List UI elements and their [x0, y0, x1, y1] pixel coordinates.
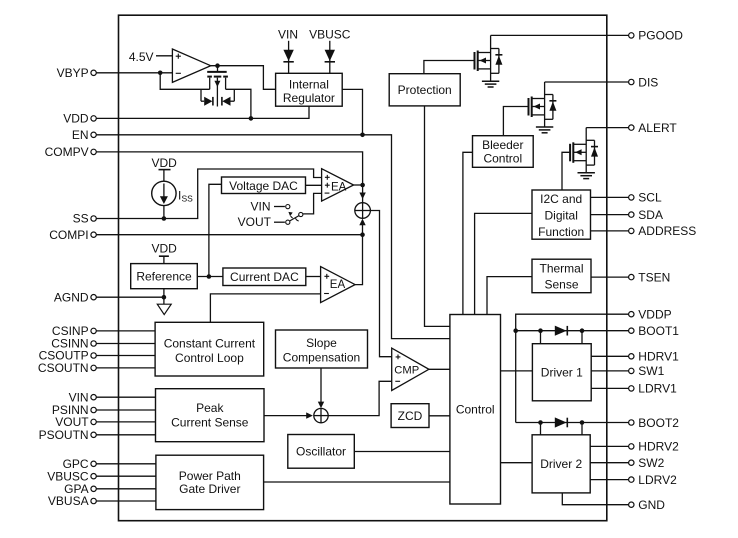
- pin SDA (right terminal): [629, 208, 663, 222]
- svg-text:VBYP: VBYP: [57, 66, 89, 80]
- pin ALERT (right terminal): [629, 121, 678, 135]
- svg-text:TSEN: TSEN: [638, 270, 670, 284]
- svg-text:CMP: CMP: [394, 364, 419, 376]
- diode D3 (bootstrap, BOOT1): [555, 326, 568, 336]
- Protection block: [389, 74, 460, 106]
- pin PSOUTN (left terminal): [39, 428, 97, 442]
- VDD rail above ISS: [152, 156, 178, 181]
- Peak Current Sense block: [156, 389, 265, 442]
- svg-text:Oscillator: Oscillator: [296, 445, 346, 459]
- wire BOOT1 cathode stub to Driver 1: [581, 331, 583, 344]
- wire VDD pin to Internal Regulator bottom: [96, 106, 309, 118]
- wire CSINP to Constant Current Control Loop: [96, 330, 155, 332]
- wire Q1 drain line to PGOOD: [491, 34, 629, 36]
- svg-text:CSOUTN: CSOUTN: [38, 361, 89, 375]
- svg-text:Slope: Slope: [306, 336, 337, 350]
- Voltage DAC block: [222, 177, 306, 194]
- wire Reference output up to Voltage DAC: [209, 184, 222, 276]
- junction BOOT2 diode cathode: [580, 420, 585, 425]
- wire EA2 output up into SUM1 (arrow): [355, 222, 362, 285]
- wire CSINN to Constant Current Control Loop: [96, 343, 155, 345]
- current source ISS: [152, 181, 193, 205]
- svg-text:Reference: Reference: [136, 270, 192, 284]
- Power Path Gate Driver block: [156, 455, 264, 509]
- wire VBYP to A1 inverting input: [96, 72, 172, 74]
- svg-text:4.5V: 4.5V: [129, 50, 154, 64]
- svg-text:VDD: VDD: [152, 242, 178, 256]
- Driver 2 block: [532, 435, 590, 493]
- svg-text:VBUSC: VBUSC: [309, 28, 351, 42]
- wire COMPV pin to EA1 output node: [96, 152, 362, 185]
- svg-text:LDRV2: LDRV2: [638, 473, 677, 487]
- svg-text:VIN: VIN: [250, 200, 270, 214]
- wire EN pin to Control: [96, 135, 450, 339]
- wire Internal Regulator output down to EN line: [342, 89, 362, 134]
- junction EN / Internal Regulator output: [360, 133, 365, 138]
- wire EA1 output to summing node: [354, 184, 363, 186]
- svg-text:PGOOD: PGOOD: [638, 29, 683, 43]
- svg-text:DIS: DIS: [638, 75, 658, 89]
- wire SUM2 output to CMP minus input: [328, 381, 392, 415]
- svg-text:Sense: Sense: [544, 278, 578, 292]
- wire VIN to Peak Current Sense: [96, 396, 155, 398]
- pin GND (right terminal): [629, 498, 666, 512]
- svg-text:Regulator: Regulator: [283, 91, 335, 105]
- svg-text:VOUT: VOUT: [238, 215, 272, 229]
- junction BOOT1 diode anode: [538, 328, 543, 333]
- wire BOOT2 cathode stub to Driver 2: [581, 423, 583, 435]
- svg-text:VDDP: VDDP: [638, 308, 671, 322]
- pin GPC (left terminal): [63, 457, 97, 471]
- svg-text:Current Sense: Current Sense: [171, 416, 249, 430]
- op-amp A1 (4.5V bypass comparator): [172, 49, 210, 82]
- ZCD block: [391, 404, 429, 428]
- diode D2 under VBUSC: [309, 28, 351, 74]
- wire Bleeder Control to Control top: [463, 152, 473, 314]
- svg-text:BOOT2: BOOT2: [638, 416, 679, 430]
- pin VIN (left terminal): [69, 390, 97, 404]
- svg-text:EA: EA: [330, 279, 346, 291]
- svg-text:EA: EA: [331, 181, 347, 193]
- wire CMP output to Control: [429, 368, 450, 370]
- wire CSOUTP to Constant Current Control Loop: [96, 355, 155, 357]
- wire Voltage DAC output to EA1: [306, 184, 322, 186]
- wire Thermal Sense to TSEN: [591, 276, 629, 278]
- pin PSINN (left terminal): [52, 403, 96, 417]
- junction VDDP rail / BOOT1: [513, 328, 518, 333]
- wire BOOT2 line: [516, 422, 629, 424]
- svg-text:PSOUTN: PSOUTN: [39, 428, 89, 442]
- svg-text:Bleeder: Bleeder: [482, 138, 523, 152]
- wire Driver 1 to HDRV1: [591, 355, 628, 357]
- wire I2C block to Q3 gate: [562, 152, 570, 190]
- svg-text:SW1: SW1: [638, 364, 664, 378]
- wire Driver 1 to SW1: [591, 370, 628, 372]
- wire PSOUTN to Peak Current Sense: [96, 434, 155, 436]
- wire SUM1 output to CMP positive input: [370, 211, 391, 357]
- wire ZCD output to Control: [429, 415, 450, 417]
- pin COMPV (left terminal): [45, 145, 97, 159]
- svg-text:VDD: VDD: [63, 112, 89, 126]
- svg-text:Driver 2: Driver 2: [540, 457, 582, 471]
- wire Driver 2 bottom to GND: [562, 493, 628, 505]
- wire Slope Compensation into SUM2 (arrow): [320, 368, 322, 405]
- pin LDRV2 (right terminal): [629, 473, 677, 487]
- pin VBYP (left terminal): [57, 66, 97, 80]
- wire Protection to Q1 gate: [424, 61, 475, 74]
- pin CSOUTN (left terminal): [38, 361, 96, 375]
- wire GPC to Power Path Gate Driver: [96, 463, 156, 465]
- Thermal Sense block: [532, 259, 591, 293]
- svg-text:Current DAC: Current DAC: [230, 270, 299, 284]
- wire COMPI pin to EA2 output node: [96, 234, 362, 236]
- pin COMPI (left terminal): [49, 228, 96, 242]
- wire Power Path Gate Driver to Control: [264, 481, 450, 483]
- wire CSOUTN to Constant Current Control Loop: [96, 367, 155, 369]
- svg-text:I2C and: I2C and: [540, 192, 582, 206]
- svg-text:AGND: AGND: [54, 290, 89, 304]
- wire Oscillator output to Control: [354, 451, 450, 453]
- wire BOOT1 line: [516, 330, 629, 332]
- svg-text:Internal: Internal: [289, 78, 329, 92]
- svg-text:Constant Current: Constant Current: [164, 336, 256, 350]
- pin VOUT (left terminal): [55, 415, 96, 429]
- svg-text:Gate Driver: Gate Driver: [179, 482, 240, 496]
- value label 4.5V: [129, 50, 173, 64]
- I2C and Digital Function block: [532, 190, 591, 239]
- pin VBUSA (left terminal): [48, 494, 96, 508]
- transistor M1 (back-to-back PMOS pass device): [201, 66, 234, 107]
- svg-text:VDD: VDD: [152, 156, 178, 170]
- wire EA1 output node into SUM1 (arrow): [362, 185, 364, 203]
- Constant Current Control Loop block: [155, 322, 264, 376]
- wire Q1 drain/source vertical: [490, 35, 492, 81]
- wire Thermal Sense to Control top: [487, 277, 532, 315]
- pin VDD (left terminal): [63, 112, 96, 126]
- pin BOOT2 (right terminal): [629, 416, 680, 430]
- svg-text:Peak: Peak: [196, 401, 224, 415]
- svg-text:VIN: VIN: [278, 28, 298, 42]
- pin ADDRESS (right terminal): [629, 224, 697, 238]
- wire Reference output to Current DAC: [197, 276, 223, 278]
- wire BOOT1 anode stub to Driver 1: [540, 331, 542, 344]
- Driver 1 block: [532, 344, 591, 401]
- Bleeder Control block: [473, 136, 534, 168]
- svg-text:SCL: SCL: [638, 191, 662, 205]
- wire I2C block to Control top: [475, 213, 532, 314]
- svg-text:VBUSA: VBUSA: [48, 494, 89, 508]
- svg-text:HDRV2: HDRV2: [638, 440, 679, 454]
- svg-text:Driver 1: Driver 1: [541, 366, 583, 380]
- ground symbol on AGND (open triangle): [157, 297, 171, 314]
- svg-text:Thermal: Thermal: [539, 261, 583, 275]
- ground under Q2: [536, 127, 553, 133]
- pin SW2 (right terminal): [629, 456, 665, 470]
- svg-text:EN: EN: [72, 128, 89, 142]
- junction Reference output: [207, 274, 212, 279]
- wire Q2 drain line to DIS: [545, 81, 629, 83]
- wire Peak Current Sense into SUM2 (arrow): [264, 415, 310, 417]
- wire switch pole to EA1 minus input: [303, 193, 322, 214]
- pin SS (left terminal): [73, 212, 97, 226]
- svg-text:COMPI: COMPI: [49, 228, 88, 242]
- junction BOOT1 diode cathode: [580, 328, 585, 333]
- wire A1 output to Internal Regulator: [211, 66, 276, 90]
- wire I2C block to ADDRESS: [591, 230, 629, 232]
- svg-text:Digital: Digital: [545, 209, 578, 223]
- pin LDRV1 (right terminal): [629, 382, 677, 396]
- Current DAC block: [223, 268, 306, 286]
- junction BOOT2 diode anode: [538, 420, 543, 425]
- wire AGND pin to reference ground: [96, 296, 164, 298]
- junction VBYP/feedback node: [158, 71, 163, 76]
- junction COMPI / EA2 output: [360, 232, 365, 237]
- svg-text:Control: Control: [456, 402, 495, 416]
- wire Control to Driver 2: [501, 462, 533, 464]
- svg-text:SS: SS: [73, 212, 89, 226]
- pin CSINN (left terminal): [51, 337, 96, 351]
- pin EN (left terminal): [72, 128, 96, 142]
- wire Reference bottom to AGND: [163, 289, 165, 298]
- svg-text:SW2: SW2: [638, 456, 664, 470]
- wire VBUSA to Power Path Gate Driver: [96, 500, 156, 502]
- junction EA1 output: [360, 183, 365, 188]
- diode D1 under VIN: [278, 28, 298, 74]
- wire VDDP pin rail: [516, 314, 629, 422]
- wire Driver 2 to LDRV2: [590, 479, 628, 481]
- wire M1 right tap to VDD line: [226, 89, 251, 118]
- svg-text:ALERT: ALERT: [638, 121, 677, 135]
- wire BOOT2 anode stub to Driver 2: [540, 423, 542, 435]
- wire Driver 1 to LDRV1: [591, 387, 628, 389]
- svg-text:COMPV: COMPV: [45, 145, 89, 159]
- Slope Compensation block: [276, 330, 368, 368]
- svg-text:Control Loop: Control Loop: [175, 351, 244, 365]
- wire Driver 2 to SW2: [590, 462, 628, 464]
- pin VDDP (right terminal): [629, 308, 672, 322]
- ground under Q3: [578, 173, 595, 179]
- svg-text:SDA: SDA: [638, 208, 663, 222]
- svg-text:Power Path: Power Path: [179, 469, 241, 483]
- pin HDRV1 (right terminal): [629, 350, 679, 364]
- wire Current DAC output to EA2: [306, 276, 321, 278]
- wire I2C block to SDA: [591, 214, 629, 216]
- ground under Q1: [482, 81, 499, 87]
- VDD rail above Reference: [152, 242, 178, 264]
- junction AGND / Reference ground: [162, 295, 167, 300]
- svg-text:Compensation: Compensation: [283, 350, 360, 364]
- wire VBUSC to Power Path Gate Driver: [96, 475, 156, 477]
- svg-text:ZCD: ZCD: [398, 409, 423, 423]
- pin TSEN (right terminal): [629, 270, 671, 284]
- wire I2C block to SCL: [591, 196, 629, 198]
- svg-text:Protection: Protection: [398, 83, 452, 97]
- wire Driver 2 to HDRV2: [590, 445, 628, 447]
- pin BOOT1 (right terminal): [629, 324, 680, 338]
- error amp EA2 (current loop): [321, 267, 356, 303]
- pin GPA (left terminal): [64, 482, 96, 496]
- wire Constant Current Control Loop to EA2 minus: [210, 294, 320, 322]
- wire Protection bottom to Control: [425, 106, 450, 327]
- wire GPA to Power Path Gate Driver: [96, 488, 156, 490]
- pin PGOOD (right terminal): [629, 29, 684, 43]
- svg-text:HDRV1: HDRV1: [638, 350, 679, 364]
- Oscillator block: [288, 435, 355, 469]
- Control block: [450, 315, 501, 505]
- IC boundary box: [119, 15, 607, 521]
- junction VDD line / M1: [249, 116, 254, 121]
- pin SW1 (right terminal): [629, 364, 665, 378]
- summing junction SUM1 (EA outputs): [355, 203, 371, 219]
- svg-text:Function: Function: [538, 225, 584, 239]
- wire Bleeder Control to Q2 gate: [503, 107, 528, 136]
- wire SS pin to EA1 positive input: [96, 169, 321, 219]
- summing junction SUM2 (peak current + slope): [314, 408, 328, 422]
- pin VBUSC (left terminal): [47, 469, 96, 483]
- transistor Q3 (ALERT NMOS): [570, 140, 598, 165]
- wire Q3 drain line to ALERT: [586, 127, 628, 129]
- wire ISS top to VDD bar: [163, 206, 165, 219]
- pin DIS (right terminal): [629, 75, 659, 89]
- Reference block: [131, 264, 198, 289]
- svg-text:ADDRESS: ADDRESS: [638, 224, 696, 238]
- junction A1 output / M1 gate: [215, 63, 220, 68]
- error amp EA1 (voltage loop): [322, 169, 354, 201]
- svg-text:Control: Control: [483, 151, 522, 165]
- svg-text:BOOT1: BOOT1: [638, 324, 679, 338]
- pin CSOUTP (left terminal): [39, 349, 97, 363]
- pin SCL (right terminal): [629, 191, 662, 205]
- svg-text:SS: SS: [182, 194, 194, 204]
- diode D4 (bootstrap, BOOT2): [555, 417, 568, 427]
- transistor Q2 (DIS NMOS): [529, 95, 557, 120]
- Internal Regulator block: [276, 73, 343, 106]
- pin AGND (left terminal): [54, 290, 96, 304]
- svg-text:GND: GND: [638, 498, 665, 512]
- svg-text:VOUT: VOUT: [55, 415, 89, 429]
- wire Control to Driver 1: [501, 370, 533, 372]
- switch S1 (VIN/VOUT feedback select): [238, 200, 303, 229]
- comparator CMP: [392, 348, 429, 390]
- junction SS / ISS source: [162, 216, 167, 221]
- wire VOUT to Peak Current Sense: [96, 421, 155, 423]
- transistor Q1 (PGOOD open-drain NMOS): [475, 49, 503, 74]
- pin CSINP (left terminal): [52, 324, 96, 338]
- wire PSINN to Peak Current Sense: [96, 409, 155, 411]
- pin HDRV2 (right terminal): [629, 440, 679, 454]
- svg-text:LDRV1: LDRV1: [638, 382, 677, 396]
- svg-text:Voltage DAC: Voltage DAC: [229, 179, 298, 193]
- wire VBYP node down to M1 left source: [160, 73, 210, 90]
